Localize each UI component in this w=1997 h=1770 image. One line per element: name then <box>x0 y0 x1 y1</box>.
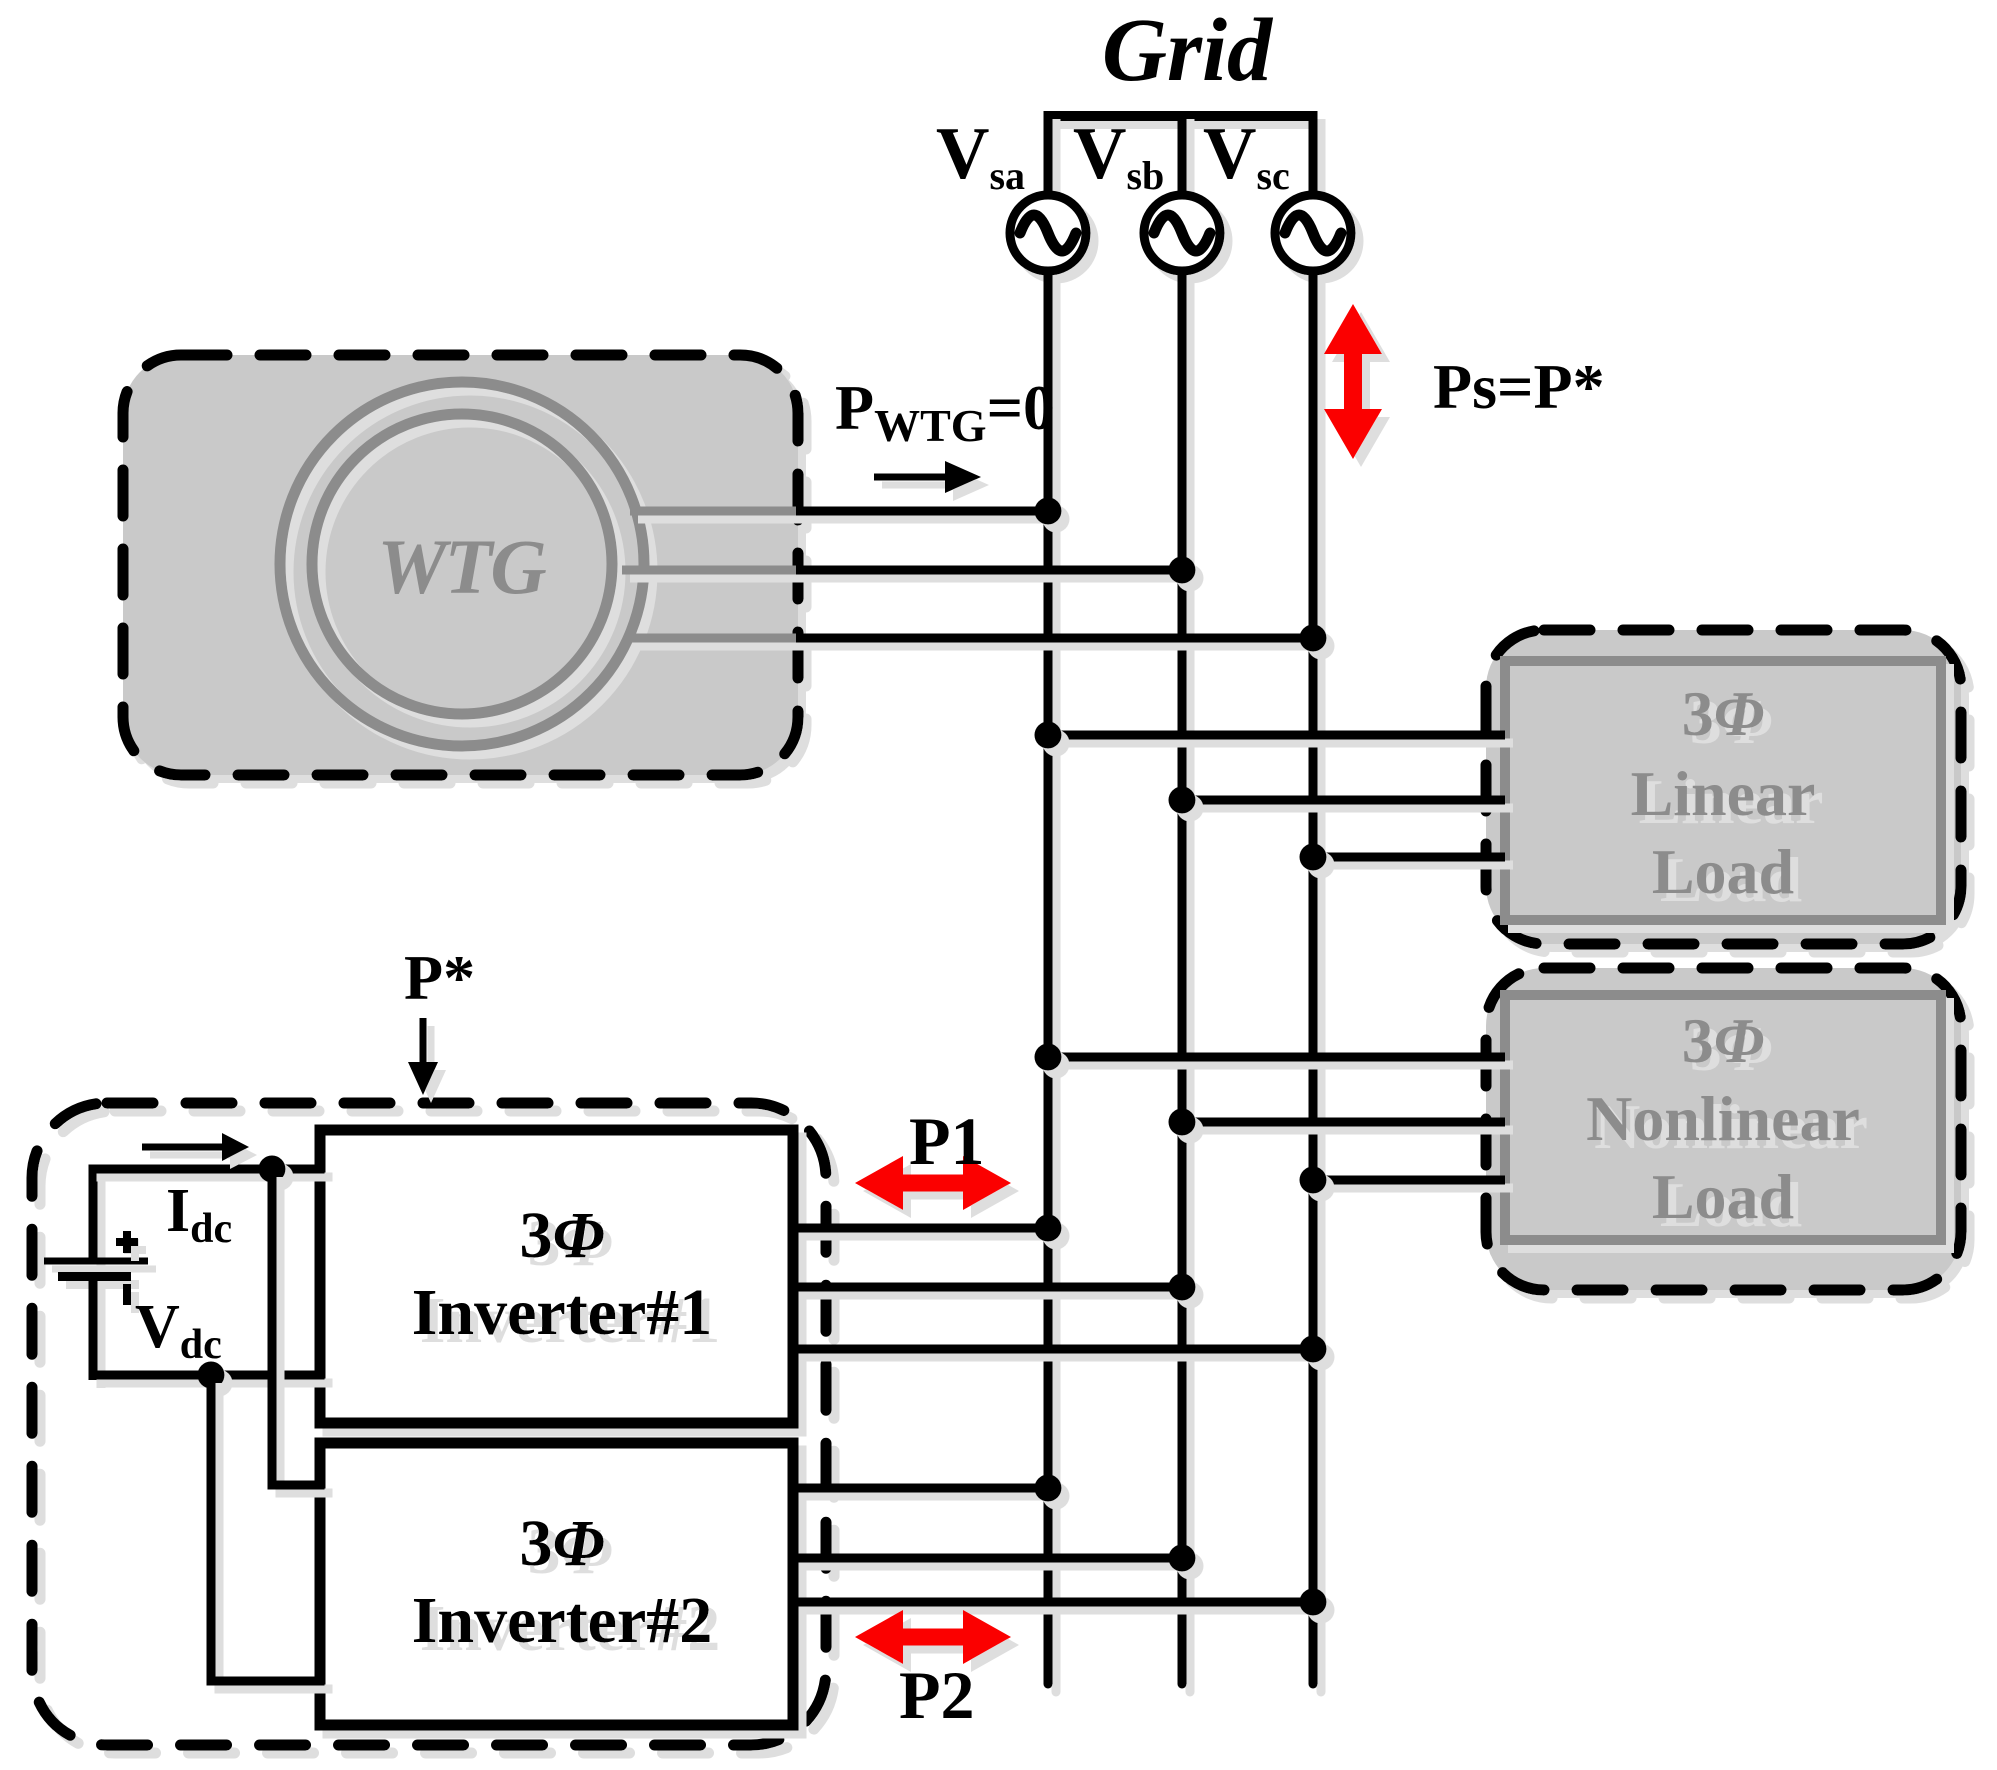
wire inverter2 phase b to bus b <box>793 1554 1182 1563</box>
node inv1-b junction <box>1169 1274 1196 1301</box>
Nonlinear Load inner rect <box>1505 995 1941 1240</box>
node inv2-b junction <box>1169 1545 1196 1572</box>
red arrow P2 <box>855 1610 1011 1664</box>
red arrow Ps (grid exchange) <box>1324 304 1382 459</box>
WTG block dashed box <box>123 355 798 775</box>
wire WTG phase b to bus b <box>796 566 1182 575</box>
svg-text:Load: Load <box>1652 836 1794 907</box>
grid top bus bar <box>1044 111 1318 121</box>
svg-text:Inverter#2: Inverter#2 <box>412 1584 713 1657</box>
wire inverter1 phase b to bus b <box>793 1283 1182 1292</box>
svg-text:Inverter#1: Inverter#1 <box>412 1276 713 1349</box>
battery plus sign <box>116 1231 138 1253</box>
wire bus b to Linear Load (phase b) <box>1178 796 1506 805</box>
wire DC- to inverter2 (horizontal) <box>207 1677 325 1686</box>
phase-c bus (Vsc) upper stub <box>1309 111 1318 197</box>
DC bottom rail <box>89 1371 325 1380</box>
battery minus mark <box>123 1284 131 1305</box>
wire bus a to Nonlinear Load (phase a) <box>1044 1053 1506 1062</box>
wire inverter2 phase c to bus c <box>793 1598 1313 1607</box>
node linear-c junction <box>1300 844 1327 871</box>
node inv1-c junction <box>1300 1336 1327 1363</box>
node inv1-a junction <box>1035 1215 1062 1242</box>
3-phase Nonlinear Load dashed box <box>1486 968 1961 1290</box>
arrow P_WTG direction <box>874 461 981 493</box>
inverter section outer dashed box <box>32 1103 826 1745</box>
node linear-b junction <box>1169 787 1196 814</box>
Nonlinear Load label <box>1586 1005 1860 1232</box>
svg-text:Grid: Grid <box>1102 1 1274 100</box>
arrow P* into inverter box <box>408 1018 438 1095</box>
node linear-a junction <box>1035 722 1062 749</box>
wire bus a to Linear Load (phase a) <box>1044 731 1506 740</box>
battery long plate <box>44 1258 148 1265</box>
inverter 2 box <box>320 1443 793 1725</box>
wire bus b to Nonlinear Load (phase b) <box>1178 1118 1506 1127</box>
node nonlinear-b junction <box>1169 1109 1196 1136</box>
node DC+ junction <box>259 1156 286 1183</box>
svg-text:Ps=P*: Ps=P* <box>1433 351 1605 422</box>
phase-b bus (Vsb) upper stub <box>1178 111 1187 197</box>
wire DC- to inverter2 (vertical) <box>207 1375 216 1685</box>
phase-a bus main <box>1044 272 1053 1684</box>
battery positive lead <box>89 1165 98 1261</box>
WTG generator inner circle <box>312 414 612 714</box>
Linear Load inner rect <box>1505 661 1941 920</box>
node DC- junction <box>198 1362 225 1389</box>
DC top rail <box>89 1165 325 1174</box>
WTG generator outer circle <box>280 382 644 746</box>
AC source Vsc circle <box>1275 195 1351 271</box>
battery short plate <box>58 1272 131 1281</box>
node inv2-a junction <box>1035 1475 1062 1502</box>
node inv2-c junction <box>1300 1589 1327 1616</box>
svg-text:Linear: Linear <box>1631 758 1816 829</box>
3-phase Linear Load dashed box <box>1486 630 1961 944</box>
svg-text:3Φ: 3Φ <box>519 1199 604 1272</box>
wire WTG phase c to bus c <box>796 634 1313 643</box>
AC source Vsc sine <box>1285 215 1341 251</box>
node nonlinear-a junction <box>1035 1044 1062 1071</box>
svg-text:P*: P* <box>404 942 475 1013</box>
svg-text:P1: P1 <box>909 1103 985 1179</box>
AC source Vsa sine <box>1020 215 1076 251</box>
red arrow P1 <box>855 1156 1011 1210</box>
svg-text:3Φ: 3Φ <box>1682 1005 1765 1076</box>
wire bus c to Linear Load (phase c) <box>1309 853 1506 862</box>
wire WTG phase a to bus a <box>796 507 1048 516</box>
WTG phase stub a (gray) <box>630 507 800 516</box>
svg-text:Nonlinear: Nonlinear <box>1586 1083 1860 1154</box>
svg-text:Load: Load <box>1652 1161 1794 1232</box>
wire DC+ to inverter2 (horizontal) <box>268 1481 325 1490</box>
wire DC+ to inverter2 (vertical) <box>268 1169 277 1489</box>
node WTG-a junction <box>1035 498 1062 525</box>
svg-text:3Φ: 3Φ <box>1682 678 1765 749</box>
svg-text:P2: P2 <box>899 1657 975 1733</box>
wire inverter2 phase a to bus a <box>793 1484 1048 1493</box>
WTG phase stub c (gray) <box>630 634 800 643</box>
AC source Vsb circle <box>1144 195 1220 271</box>
battery negative lead <box>89 1281 98 1380</box>
inverter 1 label <box>412 1199 713 1349</box>
node WTG-b junction <box>1169 557 1196 584</box>
svg-text:3Φ: 3Φ <box>519 1507 604 1580</box>
phase-c bus main <box>1309 272 1318 1684</box>
Linear Load label <box>1631 678 1816 907</box>
wire inverter1 phase c to bus c <box>793 1345 1313 1354</box>
AC source Vsb sine <box>1154 215 1210 251</box>
wire bus c to Nonlinear Load (phase c) <box>1309 1176 1506 1185</box>
phase-a bus (Vsa) upper stub <box>1044 111 1053 197</box>
AC source Vsa circle <box>1010 195 1086 271</box>
svg-text:WTG: WTG <box>377 523 546 610</box>
phase-b bus main <box>1178 272 1187 1684</box>
inverter 1 box <box>320 1130 793 1423</box>
node nonlinear-c junction <box>1300 1167 1327 1194</box>
WTG phase stub b (gray) <box>622 566 800 575</box>
node WTG-c junction <box>1300 625 1327 652</box>
Idc arrow <box>142 1133 249 1161</box>
inverter 2 label <box>412 1507 713 1657</box>
wire inverter1 phase a to bus a <box>793 1224 1048 1233</box>
